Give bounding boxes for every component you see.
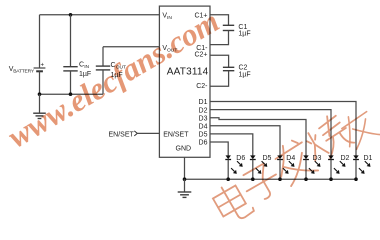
node GND junction [183, 177, 187, 181]
wire GND pin [184, 157, 186, 179]
node CIN top junction [69, 13, 73, 17]
wire D5 [210, 134, 253, 156]
LED D1 [353, 155, 372, 179]
wire D2 [210, 110, 331, 156]
svg-text:EN/SET: EN/SET [109, 131, 135, 138]
node battery/ground junction [38, 92, 42, 96]
capacitor C2 loop [210, 55, 234, 86]
LED D3 [303, 155, 321, 179]
svg-text:+: + [41, 63, 45, 69]
node D5 bus junction [251, 177, 255, 181]
node D4 bus junction [278, 177, 282, 181]
svg-text:D4: D4 [286, 155, 295, 162]
wire D3 [210, 118, 306, 156]
svg-text:D6: D6 [236, 155, 245, 162]
wire VOUT [103, 46, 159, 48]
watermark hanzi 发 [268, 137, 318, 188]
svg-text:GND: GND [176, 146, 192, 153]
wire D1 [210, 102, 356, 156]
svg-text:D3: D3 [313, 155, 322, 162]
svg-text:D3: D3 [199, 115, 208, 122]
node D1 bus junction [354, 177, 358, 181]
battery VBATTERY [34, 63, 46, 72]
ground G1 [33, 94, 46, 118]
label C1 value [238, 24, 250, 37]
watermark hanzi 电 [210, 179, 255, 226]
watermark hanzi 烧 [299, 111, 355, 165]
wire bottom bus [185, 178, 357, 180]
svg-text:D5: D5 [199, 132, 208, 139]
svg-text:C2+: C2+ [194, 52, 207, 59]
LED D4 [277, 155, 295, 179]
watermark www.elecfans.com [2, 3, 225, 154]
wire battery bottom [39, 71, 41, 94]
wire top bus VIN [40, 14, 160, 16]
label C2 value [239, 65, 251, 79]
pin VOUT [162, 45, 177, 54]
svg-text:D6: D6 [199, 140, 208, 147]
node CIN bottom junction [69, 92, 73, 96]
capacitor CIN [63, 15, 77, 94]
node ENSET chevron [134, 131, 137, 136]
svg-text:D2: D2 [199, 107, 208, 114]
capacitor C1 loop [210, 15, 234, 45]
LED D6 [225, 155, 245, 179]
wire bottom-left bus [40, 93, 104, 95]
label COUT value [111, 62, 127, 79]
svg-text:D1: D1 [199, 99, 208, 106]
watermark hanzi 友 [336, 108, 380, 152]
watermark hanzi 子 [239, 161, 284, 205]
label CIN value [79, 62, 91, 78]
LED D5 [250, 155, 272, 179]
svg-text:BATTERY: BATTERY [13, 68, 35, 74]
node D2 bus junction [329, 177, 333, 181]
svg-text:IN: IN [167, 15, 172, 21]
capacitor COUT [96, 47, 110, 94]
wire battery top [39, 15, 41, 68]
svg-text:1µF: 1µF [239, 71, 251, 78]
svg-text:D4: D4 [199, 124, 208, 131]
wire ENSET [137, 132, 159, 134]
LED D2 [328, 155, 349, 179]
svg-text:1µF: 1µF [238, 31, 250, 38]
node D6 bus junction [226, 177, 230, 181]
svg-text:AAT3114: AAT3114 [167, 67, 209, 78]
op-amp U1 AAT3114 box [159, 6, 210, 157]
label VBATTERY [9, 66, 35, 75]
svg-text:EN/SET: EN/SET [163, 131, 189, 138]
pin VIN [162, 13, 172, 22]
svg-text:D5: D5 [263, 155, 272, 162]
node D3 bus junction [304, 177, 308, 181]
wire D6 [210, 142, 228, 156]
svg-text:D1: D1 [364, 155, 373, 162]
wire D4 [210, 126, 280, 156]
svg-text:IN: IN [84, 64, 89, 70]
svg-text:D2: D2 [341, 155, 350, 162]
ground G2 [178, 179, 192, 197]
svg-text:C2-: C2- [196, 83, 208, 90]
